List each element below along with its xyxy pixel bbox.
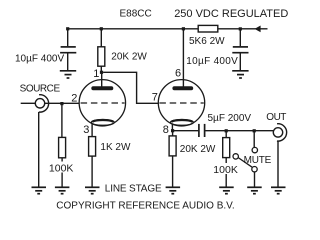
node: rail / pin 6 junction	[182, 27, 185, 30]
resistor 20K 2W (V2 cathode)	[169, 136, 176, 156]
SOURCE connector shield arc	[39, 95, 49, 112]
node: grid junction	[60, 102, 63, 105]
svg-text:6: 6	[175, 68, 181, 80]
svg-text:COPYRIGHT REFERENCE AUDIO B.V.: COPYRIGHT REFERENCE AUDIO B.V.	[56, 200, 234, 211]
wire: pin 1 to anode	[101, 72, 103, 86]
wire: out shield down to ground	[277, 141, 279, 187]
svg-text:10µF 400V: 10µF 400V	[186, 56, 238, 67]
wire: pin 6 rail to anode V2	[182, 29, 184, 87]
resistor 1K 2W	[89, 137, 96, 157]
ground (100K V1 grid)	[55, 187, 70, 193]
wire: left cap top lead	[67, 29, 69, 46]
capacitor 10uF 400V (right)	[233, 46, 248, 48]
wire: left cap bottom lead	[67, 53, 69, 70]
wire: 100K grid resistor top lead	[61, 103, 63, 137]
svg-text:5µF 200V: 5µF 200V	[208, 113, 252, 124]
svg-text:1: 1	[93, 68, 99, 80]
OUT connector shield arc	[277, 124, 287, 141]
wire: right cap top lead	[239, 29, 241, 46]
svg-text:10µF 400V: 10µF 400V	[15, 54, 64, 65]
svg-text:7: 7	[152, 91, 158, 103]
wire: bottom lead	[225, 158, 227, 187]
svg-text:OUT: OUT	[266, 112, 286, 123]
wire: pin 8 to coupling cap	[173, 130, 199, 132]
tube V2 grid (dashed)	[159, 102, 203, 104]
resistor 100K (output)	[223, 138, 230, 158]
tube V1 cathode	[91, 120, 114, 126]
wire: B+ rail right segment	[218, 28, 268, 30]
ground (right cap)	[232, 71, 248, 78]
tube V1 grid (dashed)	[81, 102, 125, 104]
svg-text:LINE STAGE: LINE STAGE	[105, 183, 162, 194]
wire: 100K out resistor top lead	[225, 131, 227, 138]
ground (source shield)	[32, 187, 47, 193]
svg-text:5K6 2W: 5K6 2W	[189, 36, 225, 47]
SOURCE connector stub	[21, 102, 36, 104]
label 100K (V1 grid)	[48, 162, 75, 173]
switch MUTE lever	[238, 158, 252, 168]
tube V2 anode plate	[172, 86, 193, 90]
svg-text:2: 2	[71, 92, 77, 104]
wire: source to grid junction to tube V1	[45, 102, 80, 104]
capacitor 10uF 400V (left)	[61, 46, 76, 48]
node: rail / 20K anode resistor junction	[100, 27, 103, 30]
switch MUTE upper contact	[252, 147, 257, 152]
svg-text:20K 2W: 20K 2W	[111, 51, 147, 62]
svg-text:1K 2W: 1K 2W	[100, 142, 131, 153]
wire: right cap bottom lead	[239, 53, 241, 70]
resistor 5K6 2W (horizontal box)	[198, 25, 218, 32]
node: pin 1 junction	[100, 71, 103, 74]
switch MUTE lower contact	[252, 167, 257, 172]
node: mute junction	[253, 129, 256, 132]
capacitor 5uF 200V (coupling)	[198, 124, 200, 137]
svg-text:MUTE: MUTE	[244, 155, 272, 166]
wire: 20K 2W bottom lead to pin 1	[100, 66, 102, 72]
wire: coupling cap to OUT	[205, 130, 273, 132]
ground (mute)	[247, 187, 262, 193]
wire: interstage coupling (pin1 to pin7)	[103, 72, 159, 103]
node: pin 8 junction	[171, 129, 174, 132]
wire: B+ rail left segment	[68, 28, 199, 30]
wire: V2 cathode pin 8 down	[171, 123, 173, 130]
tube V2 envelope	[158, 80, 204, 126]
label 100K (output)	[212, 163, 238, 174]
node: rail left end junction	[66, 27, 69, 30]
node: 100K out junction	[225, 129, 228, 132]
tube V1 envelope	[79, 80, 125, 126]
wire: mute switch top lead	[253, 131, 255, 148]
switch MUTE lever end contact	[233, 154, 238, 159]
wire: 20K 2W cathode resistor top lead	[172, 131, 174, 136]
svg-text:8: 8	[163, 124, 169, 136]
node: rail / 10uF input cap junction	[239, 27, 242, 30]
wire: bottom lead	[172, 156, 174, 187]
ground (out shield)	[271, 187, 286, 193]
ground (1K cathode)	[85, 187, 100, 193]
resistor 20K 2W (tube1 anode)	[98, 47, 105, 66]
svg-text:SOURCE: SOURCE	[20, 84, 61, 95]
ground (20K V2 cathode)	[166, 187, 181, 193]
wire: source shield down to ground	[38, 112, 40, 187]
ground (100K output)	[219, 187, 234, 193]
wire: V1 cathode to 1K	[91, 123, 93, 136]
svg-text:100K: 100K	[213, 164, 238, 176]
wire: 20K 2W top lead	[100, 29, 102, 47]
svg-text:100K: 100K	[49, 162, 74, 174]
wire: 100K bottom lead	[61, 158, 63, 187]
wire: 1K bottom lead	[91, 156, 93, 187]
arrow: 250 VDC input	[255, 26, 261, 33]
svg-text:3: 3	[83, 124, 89, 136]
tube V2 cathode	[170, 120, 193, 126]
ground (left cap)	[60, 71, 76, 78]
SOURCE connector pin circle	[35, 99, 44, 108]
OUT connector pin circle	[273, 128, 282, 137]
tube V1 anode plate	[91, 86, 113, 90]
wire: mute switch to ground	[254, 172, 256, 187]
svg-text:E88CC: E88CC	[120, 9, 152, 20]
resistor 100K (V1 grid)	[59, 137, 66, 157]
svg-text:20K 2W: 20K 2W	[180, 144, 216, 155]
svg-text:250 VDC REGULATED: 250 VDC REGULATED	[174, 8, 288, 20]
